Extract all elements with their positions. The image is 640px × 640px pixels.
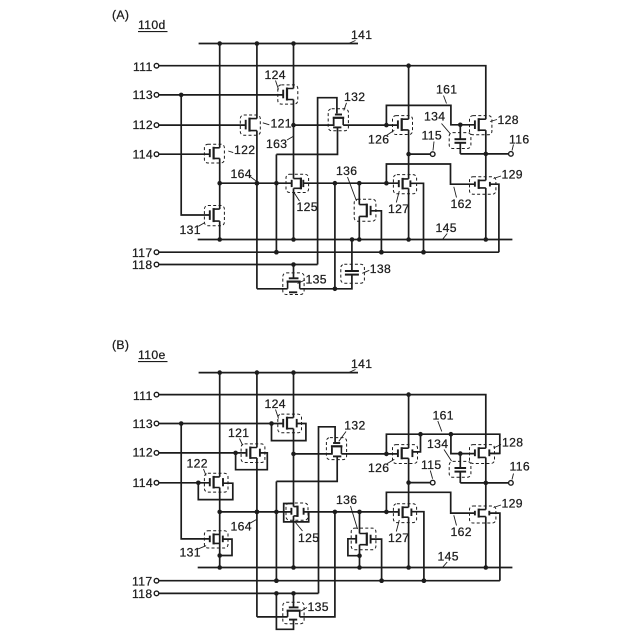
wire 141 rail (A)	[199, 41, 358, 46]
svg-text:125: 125	[297, 200, 318, 214]
wire 161	[386, 105, 475, 127]
svg-text:164: 164	[231, 167, 252, 181]
label 164 (A)	[231, 167, 256, 181]
figure (B) heading	[112, 338, 129, 352]
terminal 116 (B)	[509, 460, 530, 486]
svg-text:161: 161	[433, 409, 454, 423]
wire 124 out to 132 (B)	[294, 448, 332, 454]
svg-text:138: 138	[370, 262, 391, 276]
wire 112 (B)	[159, 451, 246, 456]
wire 135 right to cap 138 (A)	[300, 275, 352, 292]
backgate tie of 131 (B)	[220, 539, 232, 555]
wire 136 node (B)	[309, 510, 399, 515]
terminal 115 (B)	[421, 458, 441, 485]
transistor 126	[393, 116, 413, 135]
label 125 (B)	[296, 523, 320, 545]
wire 136 source to 145 (A)	[358, 216, 360, 239]
svg-text:135: 135	[308, 600, 329, 614]
svg-text:112: 112	[133, 446, 153, 460]
svg-text:124: 124	[265, 397, 286, 411]
wire 121 to 164 to 135 (A)	[255, 131, 260, 289]
transistor 126	[393, 445, 418, 464]
svg-text:163: 163	[266, 137, 287, 151]
terminal 113 (A)	[133, 88, 159, 102]
svg-text:121: 121	[271, 116, 292, 130]
terminal 114 (A)	[133, 147, 159, 161]
svg-text:111: 111	[133, 60, 153, 74]
wire gate of 136 to 117 (A)	[371, 211, 384, 255]
terminal 114 (B)	[133, 476, 159, 490]
svg-text:132: 132	[344, 90, 365, 104]
transistor 121	[240, 115, 260, 135]
label 127 (B)	[388, 520, 409, 545]
wire 136 node (A)	[304, 181, 399, 186]
capacitor 138	[341, 240, 365, 284]
transistor 128	[470, 116, 492, 135]
wire 136 drain to node 136 (B)	[359, 512, 361, 534]
transistor 125	[286, 174, 309, 192]
wire 118 to gate of 135 (A)	[293, 265, 295, 278]
terminal 116 (A)	[509, 132, 530, 156]
transistor 132	[326, 438, 346, 460]
wire 145 (A)	[198, 237, 513, 242]
terminal 118 (A)	[132, 258, 159, 272]
label 145 (B)	[438, 550, 459, 568]
transistor 129	[470, 177, 496, 194]
wire 124 to 125 (B)	[291, 429, 296, 507]
wire 118 to gate of 132 (A)	[318, 98, 337, 265]
svg-text:125: 125	[298, 531, 319, 545]
svg-text:136: 136	[336, 164, 357, 178]
wire 136 to gate of 129 (B)	[386, 492, 475, 513]
backgate tie of 125 (B)	[284, 504, 309, 522]
svg-text:141: 141	[351, 28, 372, 42]
svg-text:136: 136	[336, 493, 357, 507]
transistor 131	[204, 531, 228, 548]
label 134 (A)	[424, 109, 451, 134]
backgate tie of 126 (B)	[412, 434, 420, 452]
transistor 122	[204, 473, 228, 492]
svg-text:114: 114	[133, 476, 153, 490]
figure (A) heading	[112, 8, 129, 22]
svg-text:128: 128	[498, 113, 519, 127]
transistor 129	[470, 506, 496, 523]
wire 112 (A)	[159, 124, 246, 126]
svg-text:126: 126	[368, 133, 389, 147]
label 161 (B)	[433, 409, 454, 432]
wire 136 drain to node 136 (A)	[358, 183, 360, 204]
svg-text:145: 145	[436, 221, 457, 235]
label 129 (B)	[494, 497, 523, 511]
svg-text:113: 113	[133, 417, 153, 431]
label 136 (A)	[336, 164, 357, 201]
svg-text:118: 118	[132, 258, 152, 272]
svg-text:164: 164	[231, 519, 252, 533]
backgate tie of 128 (B)	[489, 452, 500, 454]
wire backgate of 127 to 117 (B)	[411, 512, 426, 583]
wire 141 rail (B)	[199, 370, 358, 375]
terminal 115 (A)	[422, 129, 442, 157]
svg-text:115: 115	[421, 458, 441, 472]
svg-text:161: 161	[436, 83, 457, 97]
label 132 (A)	[344, 90, 366, 111]
label 127 (A)	[388, 191, 409, 216]
wire 163 to 132 (A)	[294, 119, 334, 125]
capacitor 134	[449, 454, 471, 483]
wire 164 (B)	[220, 510, 292, 515]
wire backgate of 129 to 117 (B)	[489, 513, 500, 581]
wire 129 to 145 (B)	[485, 517, 487, 568]
wire 114 (B)	[159, 481, 210, 486]
terminal 117 (B)	[132, 574, 159, 588]
svg-text:131: 131	[180, 223, 201, 237]
terminal 112 (B)	[133, 446, 159, 460]
transistor 124	[278, 414, 302, 433]
label 138	[362, 262, 391, 276]
svg-text:116: 116	[509, 132, 529, 146]
wire 125 to 145 (A)	[293, 188, 295, 239]
wire 131 to 145 (A)	[219, 221, 221, 239]
terminal 112 (A)	[133, 118, 159, 132]
wire backgate of 132 to 164 (A)	[276, 127, 337, 154]
svg-text:115: 115	[422, 129, 442, 143]
wire backgate of 129 to 117 (A)	[490, 184, 499, 252]
terminal 118 (B)	[132, 587, 159, 601]
label 131 (A)	[180, 223, 205, 237]
svg-text:127: 127	[388, 531, 409, 545]
label 126 (B)	[368, 459, 394, 475]
wire rail to 124 net 163 (A)	[293, 44, 295, 89]
svg-text:114: 114	[133, 147, 153, 161]
transistor 136	[351, 528, 376, 550]
wire 132 to 161 (B)	[341, 452, 398, 457]
label 161 (A)	[436, 83, 457, 104]
wire 111 (B)	[159, 392, 486, 448]
terminal 111 (A)	[133, 60, 159, 74]
terminal 117 (A)	[132, 246, 159, 260]
label 110d	[138, 18, 168, 32]
wire rail to 124 (B)	[293, 373, 295, 418]
svg-text:116: 116	[510, 460, 530, 474]
wire 124 to 125 net 163 (A)	[291, 100, 296, 179]
wire 128 to node 116 (A)	[484, 130, 489, 180]
svg-text:122: 122	[234, 143, 255, 157]
transistor 122	[204, 144, 224, 163]
wire 164	[220, 181, 292, 186]
terminal 111 (B)	[133, 389, 159, 403]
wire 118 to gate of 132 (B)	[319, 427, 336, 594]
svg-text:110e: 110e	[138, 348, 166, 362]
wire 132 to node 161 (A)	[343, 123, 398, 128]
label 129 (A)	[494, 168, 523, 182]
label 135 (A)	[298, 272, 327, 286]
wire 135 left to 164 riser (A)	[257, 288, 288, 290]
svg-text:145: 145	[438, 550, 459, 564]
wire 122 to 131 node 164 (A)	[217, 158, 222, 209]
label 145 (A)	[436, 221, 457, 239]
transistor 121	[241, 444, 265, 463]
wire 113 (B)	[159, 421, 283, 426]
svg-text:128: 128	[502, 435, 523, 449]
svg-text:121: 121	[228, 426, 249, 440]
transistor 127	[393, 175, 416, 194]
wire 164 to 117 (A)	[274, 154, 279, 254]
wire node 136 to 135 (A)	[334, 183, 336, 289]
label 110e	[138, 348, 168, 362]
svg-text:162: 162	[451, 197, 472, 211]
backgate tie of 135 (B)	[276, 593, 293, 629]
label 162 (B)	[451, 515, 472, 539]
wire 135 left lead (B)	[257, 616, 288, 618]
label 136 (B)	[336, 493, 358, 529]
wire 145 (B)	[198, 565, 513, 570]
backgate tie of 122 (B)	[198, 483, 233, 500]
wire 117 (A)	[159, 250, 499, 255]
wire 122 to 164 (B)	[217, 488, 222, 568]
wire 118 (B)	[159, 591, 319, 596]
wire 111 to 126 (B)	[408, 395, 410, 449]
svg-text:134: 134	[424, 109, 445, 123]
svg-text:110d: 110d	[138, 18, 166, 32]
backgate tie of 121 (B)	[236, 453, 268, 470]
backgate tie of 124 (B)	[272, 424, 306, 441]
label 125 (A)	[294, 193, 318, 214]
wire 118 (A)	[159, 262, 318, 267]
svg-text:122: 122	[187, 457, 208, 471]
wire rail to 122 (B)	[219, 373, 221, 477]
label 128 (A)	[490, 113, 519, 127]
wire to terminal 116 (A)	[460, 153, 508, 155]
wire 111 to 126 (A)	[408, 66, 410, 120]
label 124 (B)	[265, 397, 286, 419]
label 126 (A)	[368, 130, 394, 146]
svg-text:112: 112	[133, 118, 153, 132]
svg-text:162: 162	[451, 525, 472, 539]
svg-text:124: 124	[265, 68, 286, 82]
wire 117 (B)	[159, 578, 500, 583]
wire rail to 122 (A)	[219, 44, 221, 148]
wire 127 to 145 (A)	[408, 188, 410, 239]
wire to terminal 115 (B)	[409, 482, 431, 484]
wire rail to 121 (B)	[256, 373, 258, 448]
wire 118 to gate of 135 (B)	[293, 593, 295, 606]
backgate tie of 136 (B)	[348, 539, 360, 556]
svg-text:131: 131	[180, 546, 201, 560]
label 122 (B)	[187, 457, 208, 476]
svg-text:(A): (A)	[112, 8, 129, 22]
label 164 (B)	[231, 519, 257, 533]
label 141 (A)	[349, 28, 373, 44]
transistor 135	[283, 602, 304, 624]
label 128 (B)	[494, 435, 524, 449]
label 141 (B)	[349, 357, 373, 373]
svg-text:129: 129	[502, 497, 523, 511]
svg-text:132: 132	[344, 419, 365, 433]
label 132 (B)	[339, 419, 366, 442]
wire 128 to node 116 (B)	[484, 457, 489, 509]
wire 164 riser to 117 (B)	[274, 481, 279, 583]
svg-text:(B): (B)	[112, 338, 129, 352]
svg-text:129: 129	[502, 168, 523, 182]
label 162 (A)	[451, 187, 472, 211]
transistor 124	[278, 85, 298, 104]
svg-text:141: 141	[351, 357, 372, 371]
wire gate of 136 to 117 (B)	[371, 539, 384, 583]
wire rail to 121 (A)	[256, 44, 258, 119]
wire 114 (A)	[159, 153, 210, 155]
label 163	[266, 137, 293, 151]
transistor 128	[470, 445, 495, 464]
wire 126 to 127 (B)	[406, 458, 411, 507]
wire 125 to 145 (B)	[293, 516, 295, 568]
transistor 132	[328, 109, 348, 131]
svg-text:127: 127	[388, 202, 409, 216]
wire 136 to gate of 129 (A)	[386, 164, 475, 184]
label 121 (B)	[228, 426, 249, 445]
wire backgate of 132 to 164 riser (B)	[276, 456, 337, 481]
label 131 (B)	[180, 546, 207, 560]
wire 113 to gate of 131 (A)	[181, 95, 210, 215]
transistor 131	[204, 206, 224, 226]
terminal 113 (B)	[133, 417, 159, 431]
capacitor 134	[449, 125, 471, 154]
svg-text:135: 135	[306, 272, 327, 286]
wire to terminal 115 (A)	[409, 153, 431, 155]
svg-text:111: 111	[133, 389, 153, 403]
svg-text:113: 113	[133, 88, 153, 102]
wire 129 to 145 (A)	[485, 188, 487, 240]
wire 113 (A)	[159, 93, 283, 98]
svg-text:118: 118	[132, 587, 152, 601]
wire 161 (B)	[386, 432, 499, 454]
svg-text:134: 134	[427, 437, 448, 451]
label 121 (A)	[263, 116, 292, 130]
label 134 (B)	[427, 437, 452, 461]
svg-text:126: 126	[368, 461, 389, 475]
wire backgate of 127 to 117 (A)	[410, 183, 425, 254]
transistor 135	[283, 273, 304, 295]
wire 135 right to node 136 (B)	[300, 512, 335, 617]
transistor 136	[354, 199, 376, 221]
wire 111 (A)	[159, 63, 486, 119]
label 122 (A)	[228, 143, 255, 157]
transistor 127	[393, 504, 416, 523]
label 135 (B)	[301, 600, 329, 614]
wire 127 to 145 (B)	[408, 517, 410, 567]
wire 121 to 164 to 135 (B)	[255, 458, 260, 617]
wire 126 to 127 (A)	[406, 130, 411, 179]
wire to terminal 116 (B)	[460, 482, 508, 484]
label 124 (A)	[265, 68, 286, 90]
wire 113 to gate of 131 (B)	[181, 424, 210, 539]
transistor 125	[286, 503, 308, 520]
wire 136 source to 145 (B)	[357, 545, 362, 568]
wire 161 drop to gate of 128 (B)	[451, 434, 475, 456]
